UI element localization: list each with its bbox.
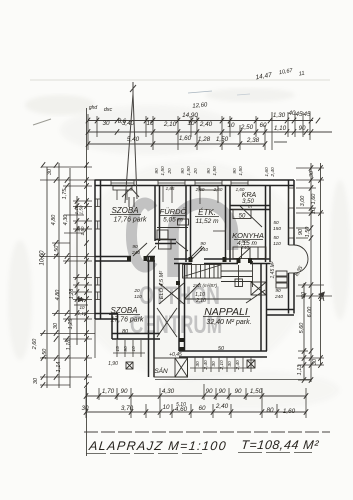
svg-text:8,6: 8,6 xyxy=(118,119,127,125)
svg-text:1,50: 1,50 xyxy=(238,166,244,176)
svg-text:2,10: 2,10 xyxy=(195,298,206,304)
svg-text:1,60: 1,60 xyxy=(283,408,296,415)
svg-text:1,28: 1,28 xyxy=(69,288,75,300)
svg-text:90: 90 xyxy=(205,388,213,395)
svg-text:2,60: 2,60 xyxy=(195,187,205,192)
svg-text:5,40: 5,40 xyxy=(127,136,140,143)
svg-text:30: 30 xyxy=(53,322,59,329)
svg-text:6,00: 6,00 xyxy=(307,306,313,318)
svg-text:m: m xyxy=(248,204,252,209)
svg-text:2,60: 2,60 xyxy=(213,187,223,192)
svg-text:3,00: 3,00 xyxy=(300,195,306,207)
svg-text:1,60: 1,60 xyxy=(311,193,317,205)
svg-text:1,60: 1,60 xyxy=(236,187,245,192)
svg-text:50: 50 xyxy=(273,235,279,241)
svg-text:10: 10 xyxy=(162,404,170,411)
svg-text:30: 30 xyxy=(227,361,233,367)
svg-text:50: 50 xyxy=(239,214,246,220)
svg-text:1,50: 1,50 xyxy=(80,226,85,235)
svg-text:10: 10 xyxy=(227,122,235,129)
svg-text:2,40: 2,40 xyxy=(199,121,213,128)
svg-text:1,25: 1,25 xyxy=(68,318,74,330)
svg-text:30: 30 xyxy=(102,120,110,127)
svg-text:17,76 park: 17,76 park xyxy=(110,317,144,324)
svg-text:10: 10 xyxy=(311,207,317,214)
svg-text:1,45 M²: 1,45 M² xyxy=(270,261,276,278)
svg-text:2szt (m³/87): 2szt (m³/87) xyxy=(192,283,218,288)
svg-text:1,10: 1,10 xyxy=(78,311,87,316)
svg-text:45: 45 xyxy=(303,111,311,118)
svg-text:1,50: 1,50 xyxy=(250,388,263,395)
svg-text:80: 80 xyxy=(122,329,129,335)
svg-text:1,60: 1,60 xyxy=(264,167,270,177)
svg-text:1,14: 1,14 xyxy=(56,362,62,373)
svg-text:10: 10 xyxy=(187,120,195,127)
svg-text:1,90: 1,90 xyxy=(108,361,118,367)
svg-text:30: 30 xyxy=(47,168,53,175)
svg-text:5,10: 5,10 xyxy=(176,402,186,408)
svg-text:45: 45 xyxy=(295,111,303,118)
svg-text:110: 110 xyxy=(273,241,281,247)
svg-text:60: 60 xyxy=(259,122,267,129)
svg-text:ghd: ghd xyxy=(89,105,98,111)
svg-text:30: 30 xyxy=(195,361,201,367)
svg-text:2,40: 2,40 xyxy=(215,403,229,410)
svg-text:SZOBA: SZOBA xyxy=(111,206,138,215)
svg-text:2,60: 2,60 xyxy=(32,338,38,351)
svg-text:1,50: 1,50 xyxy=(216,136,229,143)
svg-text:5,60: 5,60 xyxy=(299,322,305,334)
svg-text:32,40 M² park.: 32,40 M² park. xyxy=(206,319,251,326)
svg-text:240: 240 xyxy=(240,245,249,251)
svg-text:KRA: KRA xyxy=(242,192,257,199)
svg-text:80: 80 xyxy=(266,407,274,414)
svg-text:90: 90 xyxy=(123,346,129,352)
svg-text:1,50: 1,50 xyxy=(212,166,218,176)
svg-text:10: 10 xyxy=(131,346,137,352)
svg-text:4,30: 4,30 xyxy=(162,388,175,395)
svg-text:1,50: 1,50 xyxy=(160,166,166,176)
svg-text:90: 90 xyxy=(132,244,138,250)
svg-text:1,75: 1,75 xyxy=(62,188,68,200)
svg-text:1,50: 1,50 xyxy=(54,245,60,257)
svg-text:240: 240 xyxy=(274,294,283,300)
svg-text:50: 50 xyxy=(218,346,225,352)
svg-text:FÜRDŐ: FÜRDŐ xyxy=(160,207,187,216)
svg-text:4,80: 4,80 xyxy=(55,289,61,301)
svg-text:1,50: 1,50 xyxy=(42,348,48,360)
svg-text:2,10: 2,10 xyxy=(163,121,177,128)
svg-text:60: 60 xyxy=(198,405,206,412)
svg-text:2,40: 2,40 xyxy=(270,167,276,178)
svg-text:90: 90 xyxy=(234,388,242,395)
svg-text:90: 90 xyxy=(154,168,160,174)
svg-text:30: 30 xyxy=(309,170,315,177)
svg-text:1,85: 1,85 xyxy=(166,186,175,191)
svg-text:30: 30 xyxy=(33,377,39,384)
svg-text:30: 30 xyxy=(301,291,307,298)
svg-text:1,50: 1,50 xyxy=(186,166,192,176)
svg-text:T=108,44 M²: T=108,44 M² xyxy=(240,438,319,452)
svg-text:14,90: 14,90 xyxy=(182,112,198,119)
svg-text:90: 90 xyxy=(275,288,281,294)
svg-text:5,05 m: 5,05 m xyxy=(163,217,183,224)
svg-text:10,50: 10,50 xyxy=(40,250,46,266)
svg-text:SÁN: SÁN xyxy=(154,366,168,375)
svg-text:150: 150 xyxy=(273,226,281,232)
svg-text:90: 90 xyxy=(180,168,186,174)
svg-text:ELŐ 4,5 M²: ELŐ 4,5 M² xyxy=(158,271,165,299)
svg-text:240: 240 xyxy=(199,247,208,253)
svg-text:30: 30 xyxy=(312,358,318,365)
svg-text:15: 15 xyxy=(115,346,121,352)
svg-text:10: 10 xyxy=(79,305,85,310)
svg-text:90: 90 xyxy=(200,241,206,247)
svg-text:3,70: 3,70 xyxy=(121,405,134,412)
svg-text:KONYHA: KONYHA xyxy=(232,231,264,240)
svg-text:dxc: dxc xyxy=(104,107,113,113)
svg-text:1,18: 1,18 xyxy=(66,339,72,351)
svg-text:90: 90 xyxy=(232,168,238,174)
svg-text:ÉTK.: ÉTK. xyxy=(198,208,216,217)
svg-text:17,76 park: 17,76 park xyxy=(113,217,147,224)
svg-text:2,50: 2,50 xyxy=(240,124,254,131)
svg-text:20: 20 xyxy=(133,288,140,294)
svg-text:90: 90 xyxy=(298,228,304,235)
svg-text:1,50: 1,50 xyxy=(79,205,84,214)
svg-text:ALAPRAJZ M=1:100: ALAPRAJZ M=1:100 xyxy=(87,439,227,453)
svg-text:90: 90 xyxy=(218,388,226,395)
svg-text:10: 10 xyxy=(146,120,154,127)
svg-text:2,40: 2,40 xyxy=(235,360,241,371)
svg-text:90: 90 xyxy=(241,239,247,245)
svg-text:1,60: 1,60 xyxy=(179,135,192,142)
svg-text:110: 110 xyxy=(134,294,142,300)
svg-text:4,80: 4,80 xyxy=(51,214,57,226)
svg-text:2,38: 2,38 xyxy=(246,137,260,144)
svg-text:11,52 m: 11,52 m xyxy=(195,218,219,225)
svg-text:50: 50 xyxy=(273,220,279,226)
svg-text:90: 90 xyxy=(120,388,128,395)
svg-text:240: 240 xyxy=(131,250,140,256)
svg-text:1,30: 1,30 xyxy=(273,112,286,119)
svg-text:1,13: 1,13 xyxy=(297,364,303,376)
svg-text:20: 20 xyxy=(167,168,173,175)
svg-text:30: 30 xyxy=(81,405,89,412)
svg-text:2,10: 2,10 xyxy=(219,360,225,371)
svg-text:1,10: 1,10 xyxy=(274,125,287,132)
svg-text:2,40: 2,40 xyxy=(203,360,209,371)
svg-text:11: 11 xyxy=(298,71,305,78)
svg-text:90: 90 xyxy=(298,125,306,132)
svg-text:1,70: 1,70 xyxy=(102,388,115,395)
svg-text:1,28: 1,28 xyxy=(198,136,211,143)
svg-text:1,50: 1,50 xyxy=(305,226,311,238)
svg-text:SZOBA: SZOBA xyxy=(110,306,137,315)
svg-text:30: 30 xyxy=(211,361,217,367)
svg-text:+0,45: +0,45 xyxy=(169,352,182,358)
svg-text:90: 90 xyxy=(206,168,212,174)
svg-text:4,30: 4,30 xyxy=(63,214,69,226)
svg-text:20: 20 xyxy=(193,168,199,175)
